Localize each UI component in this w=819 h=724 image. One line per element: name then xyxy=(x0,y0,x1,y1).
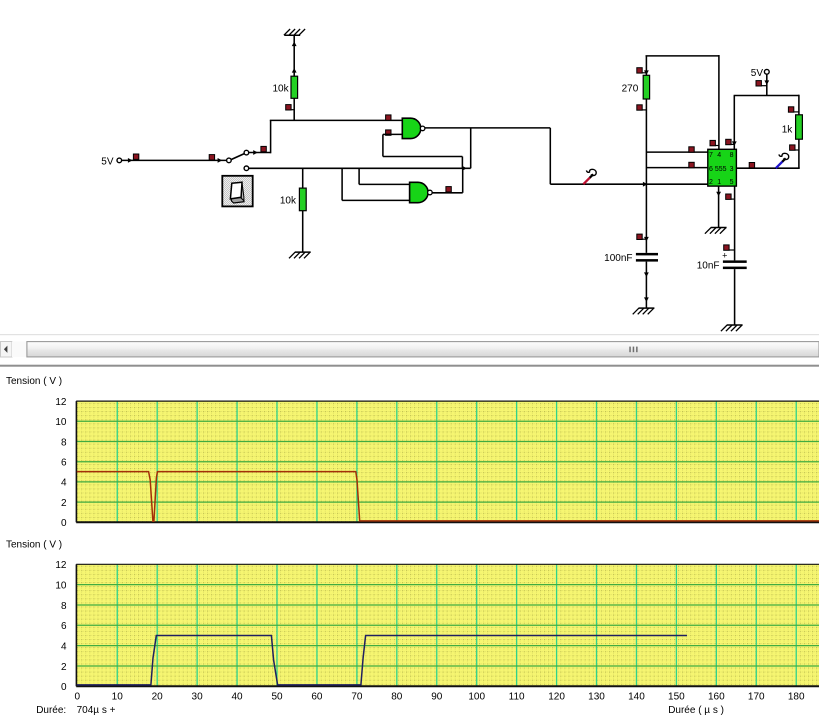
svg-text:704µ s +: 704µ s + xyxy=(77,705,116,716)
svg-text:0: 0 xyxy=(61,518,67,529)
svg-text:7: 7 xyxy=(709,152,713,159)
svg-text:8: 8 xyxy=(61,437,67,448)
svg-text:12: 12 xyxy=(55,397,67,408)
svg-text:100: 100 xyxy=(468,692,485,703)
svg-text:90: 90 xyxy=(431,692,443,703)
svg-text:140: 140 xyxy=(628,692,645,703)
svg-text:180: 180 xyxy=(788,692,805,703)
svg-text:10nF: 10nF xyxy=(697,260,720,271)
svg-text:110: 110 xyxy=(509,692,525,703)
svg-text:30: 30 xyxy=(192,692,204,703)
svg-text:270: 270 xyxy=(622,84,639,95)
svg-text:+: + xyxy=(722,250,727,260)
svg-text:130: 130 xyxy=(588,692,605,703)
svg-text:10k: 10k xyxy=(280,196,297,207)
svg-text:0: 0 xyxy=(61,682,67,693)
svg-text:4: 4 xyxy=(717,152,721,159)
svg-text:1k: 1k xyxy=(782,124,794,135)
svg-text:4: 4 xyxy=(61,478,67,489)
svg-text:5V: 5V xyxy=(751,68,764,79)
svg-text:80: 80 xyxy=(391,692,403,703)
svg-text:Durée:: Durée: xyxy=(36,705,66,716)
svg-text:Tension ( V ): Tension ( V ) xyxy=(6,540,62,551)
svg-text:10: 10 xyxy=(55,580,67,591)
svg-text:Durée ( µ s ): Durée ( µ s ) xyxy=(668,705,724,716)
svg-text:4: 4 xyxy=(61,641,67,652)
svg-text:120: 120 xyxy=(548,692,565,703)
svg-text:40: 40 xyxy=(231,692,243,703)
svg-text:10: 10 xyxy=(55,417,67,428)
svg-text:100nF: 100nF xyxy=(604,253,632,264)
svg-text:2: 2 xyxy=(709,179,713,186)
svg-text:170: 170 xyxy=(748,692,765,703)
svg-text:6: 6 xyxy=(61,621,67,632)
svg-text:60: 60 xyxy=(311,692,323,703)
svg-text:0: 0 xyxy=(75,692,81,703)
svg-text:70: 70 xyxy=(351,692,363,703)
svg-text:2: 2 xyxy=(61,498,67,509)
svg-text:2: 2 xyxy=(61,662,67,673)
svg-text:5: 5 xyxy=(730,179,734,186)
svg-text:160: 160 xyxy=(708,692,725,703)
svg-text:6: 6 xyxy=(61,458,67,469)
svg-text:10k: 10k xyxy=(272,84,289,95)
svg-text:5V: 5V xyxy=(101,156,114,167)
svg-text:10: 10 xyxy=(112,692,124,703)
svg-text:555: 555 xyxy=(715,166,727,173)
svg-text:3: 3 xyxy=(730,166,734,173)
svg-text:Tension ( V ): Tension ( V ) xyxy=(6,376,62,387)
svg-text:1: 1 xyxy=(717,179,721,186)
svg-text:12: 12 xyxy=(55,560,67,571)
svg-text:150: 150 xyxy=(668,692,685,703)
svg-text:50: 50 xyxy=(271,692,283,703)
svg-text:6: 6 xyxy=(709,166,713,173)
svg-text:8: 8 xyxy=(730,152,734,159)
svg-text:20: 20 xyxy=(152,692,164,703)
svg-text:8: 8 xyxy=(61,601,67,612)
